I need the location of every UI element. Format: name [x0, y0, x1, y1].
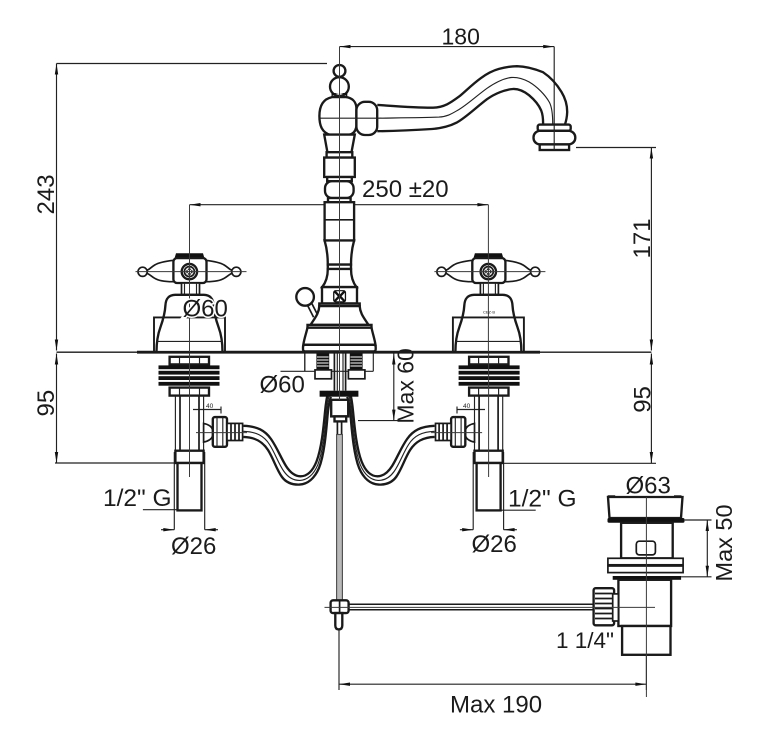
drain flange bottom bar	[608, 518, 685, 523]
svg-text:1/2" G: 1/2" G	[508, 486, 577, 513]
right branch centerline	[431, 432, 482, 434]
column turned segments	[324, 135, 355, 153]
handle centerlines	[189, 205, 191, 352]
actuating rod centerline	[325, 606, 656, 608]
dimension Max 50	[681, 504, 737, 581]
compression olive	[204, 423, 213, 442]
dimension Ø26 right	[460, 452, 517, 558]
fitting hex nut	[213, 417, 227, 447]
drain plate 1	[608, 558, 683, 565]
drain tailpipe	[622, 626, 670, 655]
svg-text:Max 60: Max 60	[393, 348, 419, 423]
svg-text:180: 180	[442, 24, 480, 50]
svg-text:243: 243	[33, 174, 60, 214]
spout upper wall	[377, 66, 567, 124]
svg-text:250 ±20: 250 ±20	[362, 176, 449, 203]
overflow hole	[636, 541, 655, 555]
drain neck	[621, 523, 673, 559]
finial large ball	[330, 77, 349, 96]
svg-text:Ø26: Ø26	[472, 531, 517, 558]
mini dimension 40 right	[457, 403, 485, 414]
mini dimension 40 left	[193, 403, 221, 414]
left handle assembly	[136, 205, 247, 352]
junction stub	[335, 613, 342, 629]
left wing	[147, 260, 174, 281]
drain washer	[613, 576, 681, 580]
dimension 95 right	[503, 354, 656, 464]
left branch centerline	[196, 432, 247, 434]
dimension 95 left	[33, 354, 177, 464]
svg-text:171: 171	[629, 218, 656, 258]
svg-text:CEZ·B: CEZ·B	[483, 310, 495, 315]
svg-text:Ø63: Ø63	[626, 473, 671, 500]
center pipe centerline below deck	[339, 353, 341, 400]
spout body crosspiece	[319, 97, 356, 135]
spout outlet lip	[540, 144, 569, 150]
dimension Ø26 left	[161, 452, 218, 560]
dimension 171	[576, 148, 656, 351]
handle rosette	[182, 264, 197, 279]
svg-text:40: 40	[463, 403, 471, 410]
spout lower wall	[377, 89, 543, 131]
countertop deck line	[57, 351, 652, 353]
center washer bar	[320, 391, 359, 397]
right inlet shank assembly (mirrored)	[347, 357, 519, 511]
left shank centerline	[189, 353, 191, 477]
lower mounting nut	[170, 388, 209, 396]
dimension 250 +-20	[190, 176, 489, 206]
svg-text:Max 50: Max 50	[711, 504, 737, 581]
handle base square	[154, 317, 225, 352]
spout collar	[356, 102, 377, 135]
dimension Ø63	[608, 473, 682, 500]
thread collar	[175, 451, 203, 463]
threaded shaft	[174, 396, 176, 451]
drain lever knob	[296, 288, 314, 306]
left inlet shank assembly	[159, 357, 331, 511]
svg-text:95: 95	[33, 390, 60, 417]
handle cross body	[173, 258, 206, 283]
dimension Max 60	[358, 348, 419, 423]
spout middle line	[377, 77, 552, 124]
svg-text:Max 190: Max 190	[450, 692, 542, 719]
horizontal actuating rod	[349, 603, 594, 605]
flexible hose to center	[244, 391, 329, 476]
180 extension through spout outlet	[553, 125, 555, 150]
svg-text:1 1/4": 1 1/4"	[556, 628, 614, 653]
label 1/2 G right	[502, 486, 577, 513]
pop-up rod upper	[336, 421, 338, 435]
handle bell dome	[157, 295, 223, 352]
right handle assembly	[434, 205, 545, 352]
svg-text:Ø60: Ø60	[260, 372, 305, 399]
right wing	[205, 260, 232, 281]
cartridge band with X square	[322, 287, 357, 303]
svg-text:95: 95	[629, 386, 656, 413]
dimension 243 vertical line	[33, 64, 327, 351]
label 1/2 G left	[103, 485, 177, 512]
top finial small ball	[334, 65, 346, 77]
center shank Ø60 extension guides	[304, 353, 306, 371]
drain body	[618, 580, 671, 626]
smooth inlet pipe 1/2G	[178, 463, 202, 510]
right shank centerline	[488, 353, 490, 477]
column centerline	[339, 47, 341, 352]
upper mounting nut	[170, 357, 209, 365]
flange rib plates	[159, 365, 220, 369]
svg-text:Ø26: Ø26	[171, 533, 216, 560]
svg-text:40: 40	[206, 403, 214, 410]
svg-text:1/2" G: 1/2" G	[103, 485, 172, 512]
svg-text:Ø60: Ø60	[183, 296, 228, 323]
handle top cap	[175, 253, 205, 258]
spout outlet collar	[538, 125, 571, 131]
nut connector	[613, 594, 619, 621]
drain centerline	[645, 497, 647, 697]
knurled nut	[594, 588, 615, 625]
drain plate 2	[608, 566, 683, 573]
center bell dome	[319, 304, 359, 307]
dimension Max 190	[339, 629, 646, 718]
center threaded studs	[315, 354, 332, 379]
center supply tube	[333, 354, 335, 391]
ridged nipple	[227, 423, 243, 440]
rod junction block	[331, 600, 349, 613]
handle stem	[182, 283, 200, 295]
drain flange top	[608, 497, 683, 518]
pop-up tee block	[331, 400, 348, 417]
pop-up rod gray	[337, 435, 343, 601]
spout outlet bulge	[534, 131, 576, 145]
label Ø60 center with leader	[260, 354, 374, 399]
dimension 180	[340, 24, 555, 151]
